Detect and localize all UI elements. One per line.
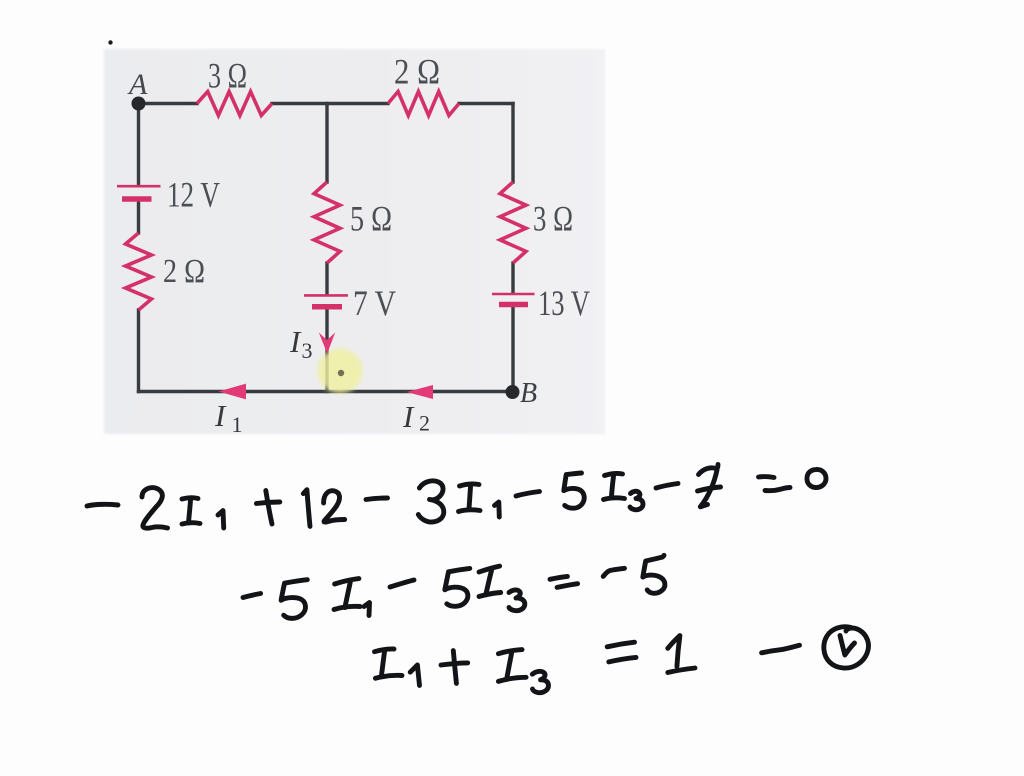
eq1 sub3 bbox=[630, 491, 643, 509]
resistor 2ohm left bbox=[126, 233, 152, 310]
resistor 5ohm middle bbox=[314, 182, 340, 263]
svg-text:3 Ω: 3 Ω bbox=[533, 199, 573, 239]
arrow I2 on bottom wire bbox=[407, 385, 434, 399]
eq1 equals bbox=[759, 474, 775, 480]
arrow I3 on middle wire bbox=[319, 333, 335, 354]
eq1 digit 3 bbox=[418, 481, 443, 522]
eq1 digit 7 bbox=[699, 465, 719, 475]
eq1 digit 0 bbox=[807, 469, 826, 487]
wire bottom: left corner to B bbox=[139, 390, 514, 393]
eq2 digit 5 (third) bbox=[643, 555, 665, 593]
resistor 3ohm top bbox=[197, 92, 272, 116]
resistor 2ohm top bbox=[388, 92, 459, 116]
eq1 sub1 (second) bbox=[495, 502, 500, 517]
svg-text:2 Ω: 2 Ω bbox=[394, 52, 440, 92]
svg-text:3: 3 bbox=[302, 338, 313, 363]
eq3 sub1 bbox=[410, 665, 419, 686]
eq1 minus 3 bbox=[516, 492, 540, 497]
eq1 digit 1 bbox=[303, 490, 310, 527]
svg-text:I: I bbox=[289, 324, 302, 359]
arrow I1 on bottom wire bbox=[219, 384, 247, 400]
wire middle branch bbox=[325, 104, 328, 183]
wire top: A to right corner bbox=[139, 102, 198, 105]
resistor 3ohm right bbox=[500, 182, 526, 263]
svg-text:B: B bbox=[520, 378, 537, 409]
eq2 I (of I1) bbox=[335, 579, 359, 584]
svg-text:A: A bbox=[127, 68, 148, 101]
eq3 minus bbox=[762, 645, 800, 653]
circuit panel background bbox=[104, 49, 605, 434]
node A bbox=[132, 97, 146, 111]
eq1 digit 2 bbox=[324, 491, 345, 522]
eq1 I (of second I1) bbox=[460, 484, 480, 486]
eq3 sub3 bbox=[532, 671, 548, 692]
eq1 sub1 bbox=[218, 511, 224, 528]
svg-text:I: I bbox=[214, 398, 227, 433]
wire right branch bbox=[511, 104, 514, 183]
svg-text:7 V: 7 V bbox=[353, 283, 396, 323]
eq2 sub1 bbox=[364, 603, 370, 616]
svg-text:3 Ω: 3 Ω bbox=[208, 56, 247, 96]
battery 7V bbox=[304, 295, 348, 306]
dot inside highlight bbox=[338, 370, 344, 376]
eq3 I (of I1) bbox=[375, 649, 395, 652]
svg-text:12 V: 12 V bbox=[167, 175, 220, 215]
eq1 plus bbox=[256, 502, 279, 504]
svg-text:2 Ω: 2 Ω bbox=[163, 253, 205, 290]
eq1 digit 5 bbox=[564, 473, 584, 508]
eq2 I (of I3) bbox=[479, 566, 500, 572]
eq2 minus 3 bbox=[603, 568, 624, 576]
eq3 I (of I3) bbox=[498, 650, 522, 654]
eq2 equals bbox=[550, 576, 567, 579]
eq3 equals bbox=[607, 642, 634, 647]
svg-text:I: I bbox=[402, 399, 415, 434]
svg-text:13 V: 13 V bbox=[538, 283, 590, 323]
node B bbox=[506, 385, 520, 399]
svg-text:5 Ω: 5 Ω bbox=[350, 199, 392, 239]
stray dot top-left bbox=[108, 40, 112, 44]
eq1 minus 4 bbox=[656, 484, 678, 489]
eq3 circled 1 bbox=[840, 636, 855, 656]
wire left branch bbox=[137, 104, 140, 185]
eq2 digit 5 (second) bbox=[445, 568, 470, 606]
eq1 digit 2 (first) bbox=[142, 488, 168, 529]
battery 12V bbox=[117, 186, 161, 199]
eq1 minus 1 bbox=[87, 504, 118, 506]
eq1 minus 2 bbox=[366, 498, 388, 500]
svg-text:2: 2 bbox=[419, 411, 430, 436]
eq2 minus 1 bbox=[243, 594, 261, 598]
eq2 minus 2 bbox=[390, 580, 414, 587]
eq3 plus bbox=[441, 663, 468, 665]
eq2 digit 5 (first) bbox=[281, 580, 307, 619]
eq3 digit 1 underlined bbox=[668, 636, 680, 667]
svg-text:1: 1 bbox=[232, 412, 243, 437]
eq2 sub3 bbox=[509, 590, 525, 611]
eq1 I (of I1) bbox=[182, 498, 198, 499]
yellow highlight cursor bbox=[318, 349, 363, 394]
battery 13V bbox=[492, 294, 535, 305]
eq1 I (of I3) bbox=[605, 474, 623, 476]
